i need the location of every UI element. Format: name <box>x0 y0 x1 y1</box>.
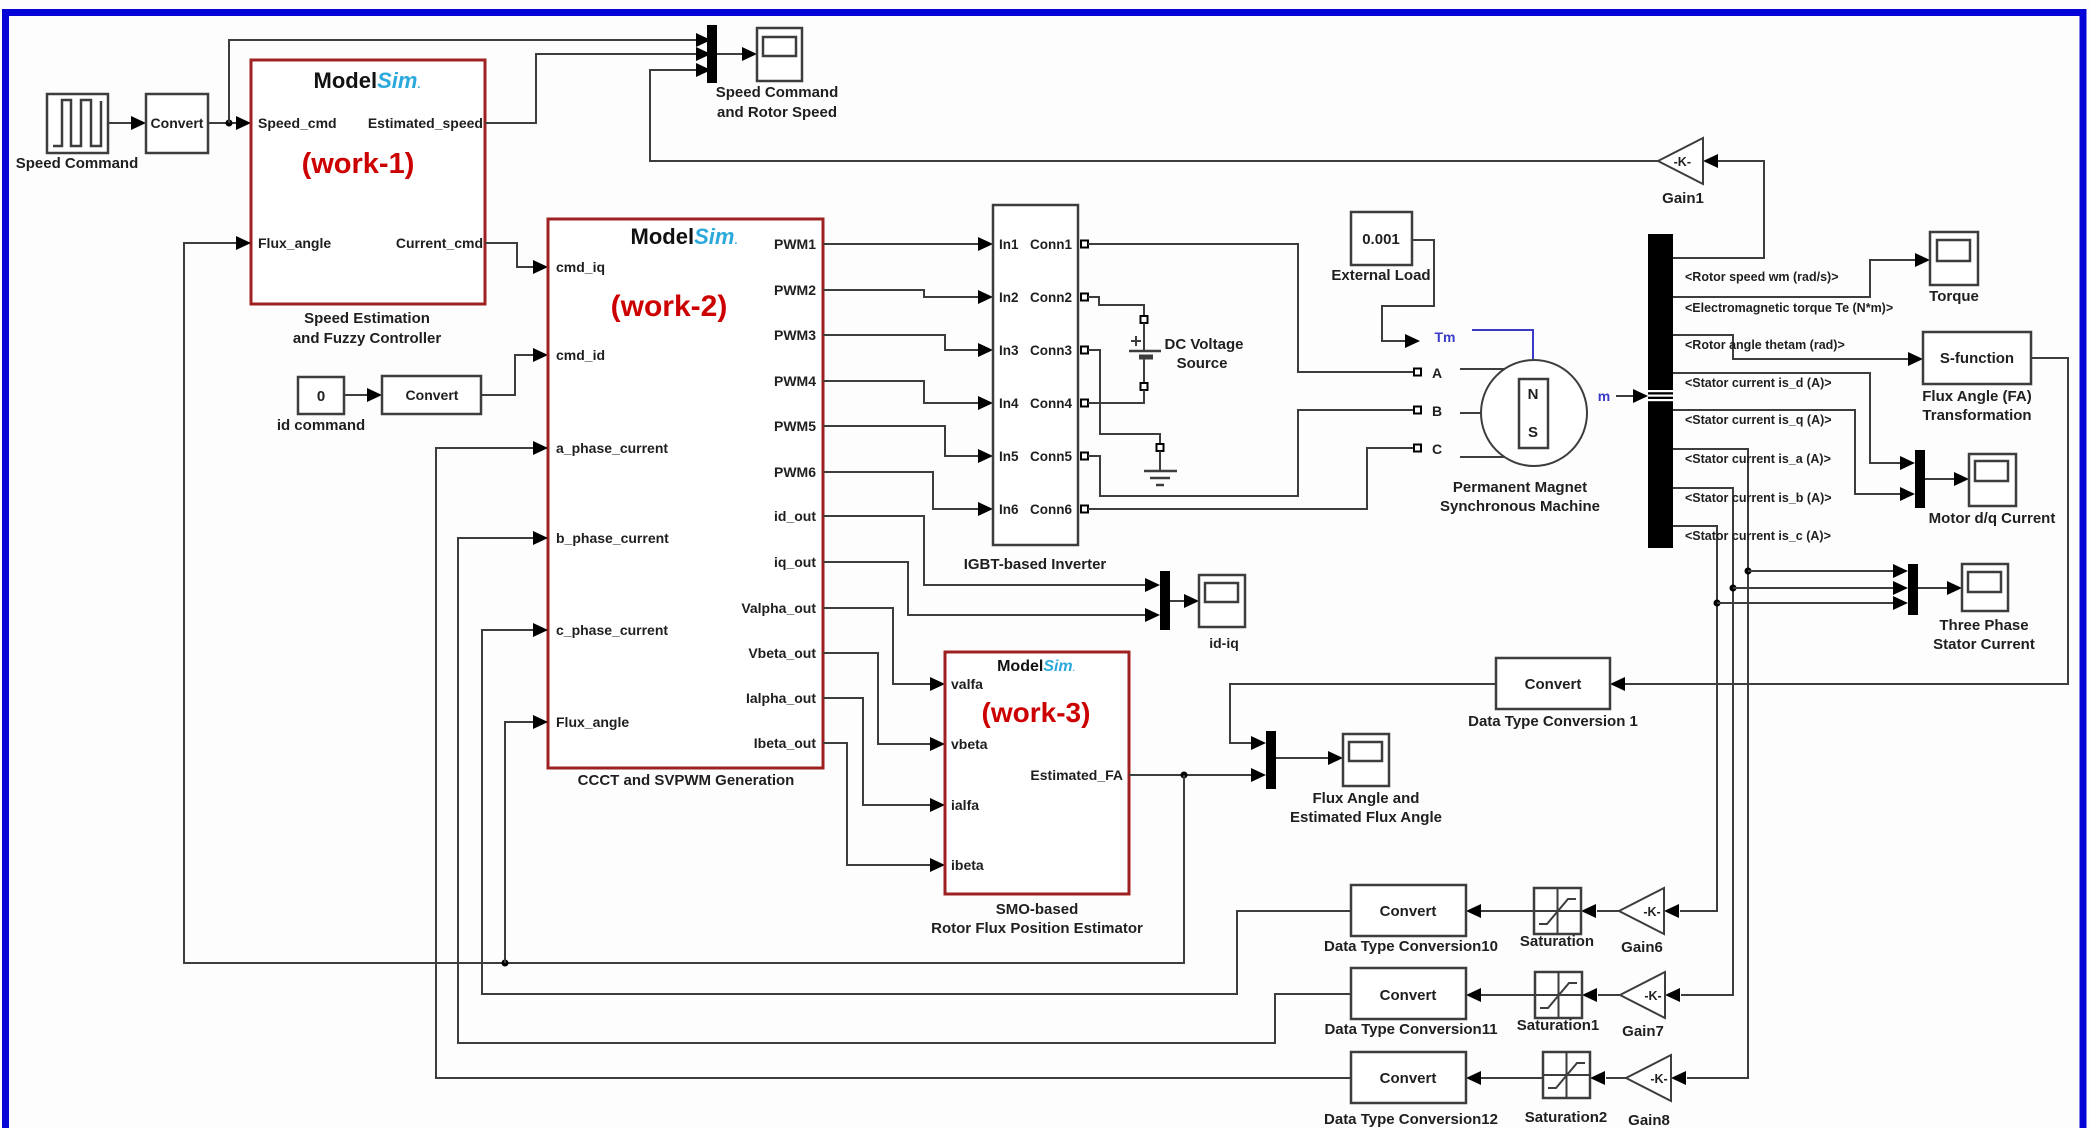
svg-text:<Stator current is_d (A)>: <Stator current is_d (A)> <box>1685 376 1832 390</box>
svg-text:<Electromagnetic torque Te (N*: <Electromagnetic torque Te (N*m)> <box>1685 301 1893 315</box>
wire is_b branch to Three Phase mux <box>1730 585 1737 592</box>
machine stub A <box>1460 368 1504 370</box>
svg-text:PWM4: PWM4 <box>774 373 816 389</box>
svg-text:Conn1: Conn1 <box>1030 237 1072 252</box>
svg-text:<Stator current is_a (A)>: <Stator current is_a (A)> <box>1685 452 1831 466</box>
svg-text:Source: Source <box>1177 355 1228 372</box>
svg-text:<Stator current is_c (A)>: <Stator current is_c (A)> <box>1685 529 1831 543</box>
svg-text:Synchronous Machine: Synchronous Machine <box>1440 498 1600 515</box>
svg-text:ModelSim.: ModelSim. <box>631 224 738 249</box>
block IGBT-based Inverter <box>993 205 1078 545</box>
scope Speed Command and Rotor Speed <box>757 28 802 81</box>
block S-function <box>1923 332 2031 384</box>
svg-text:ialfa: ialfa <box>951 797 979 813</box>
svg-text:Flux_angle: Flux_angle <box>258 235 331 251</box>
machine Permanent Magnet Synchronous Machine <box>1481 360 1587 466</box>
wire Tm blue to machine top <box>1472 330 1533 359</box>
block Convert Data Type Conversion 1 <box>1496 658 1610 709</box>
svg-text:id_out: id_out <box>774 508 816 524</box>
svg-text:<Stator current is_q (A)>: <Stator current is_q (A)> <box>1685 413 1832 427</box>
svg-text:N: N <box>1528 386 1539 403</box>
svg-text:ModelSim.: ModelSim. <box>997 658 1075 675</box>
block Convert Data Type Conversion10 <box>1351 885 1466 936</box>
svg-text:Speed Command: Speed Command <box>16 155 139 172</box>
svg-text:In4: In4 <box>999 396 1019 411</box>
svg-text:PWM2: PWM2 <box>774 282 816 298</box>
svg-text:a_phase_current: a_phase_current <box>556 440 668 456</box>
wire Valpha_out to valfa <box>823 608 931 684</box>
svg-text:C: C <box>1432 441 1442 457</box>
svg-text:Torque: Torque <box>1929 288 1979 305</box>
wire Estimated_speed to Speed Command mux <box>485 54 697 123</box>
scope Motor d/q Current <box>1969 454 2016 506</box>
wire 1733 to Gain7 <box>1681 994 1733 996</box>
wire battery negative to Conn4 <box>1088 390 1144 403</box>
svg-text:-K-: -K- <box>1674 155 1691 169</box>
block Convert (data type conversion) <box>146 94 208 153</box>
svg-text:S-function: S-function <box>1940 350 2014 367</box>
svg-text:Valpha_out: Valpha_out <box>741 600 816 616</box>
svg-text:Convert: Convert <box>1380 903 1437 920</box>
wire Convert to cmd_id <box>481 355 534 395</box>
svg-text:cmd_iq: cmd_iq <box>556 259 605 275</box>
mux Motor d/q <box>1915 450 1925 508</box>
wire stator current is_b down <box>1673 488 1733 995</box>
node B port square <box>1414 407 1421 414</box>
svg-text:Speed_cmd: Speed_cmd <box>258 115 337 131</box>
wire iq_out to id-iq mux <box>823 562 1146 615</box>
svg-text:Three Phase: Three Phase <box>1939 617 2028 634</box>
magnet N S <box>1519 379 1548 448</box>
svg-text:(work-3): (work-3) <box>982 697 1091 728</box>
node A port square <box>1414 369 1421 376</box>
wire DTC1 output to Flux Angle mux <box>1230 684 1496 743</box>
wire Gain8 to Saturation2 <box>1606 1077 1626 1079</box>
svg-text:Stator Current: Stator Current <box>1933 636 2035 653</box>
node ground terminal <box>1157 444 1164 451</box>
svg-text:Transformation: Transformation <box>1922 407 2031 424</box>
svg-text:Vbeta_out: Vbeta_out <box>748 645 816 661</box>
svg-text:-K-: -K- <box>1644 989 1661 1003</box>
svg-text:Estimated_speed: Estimated_speed <box>368 115 483 131</box>
svg-text:b_phase_current: b_phase_current <box>556 530 669 546</box>
wire DTC11 to b_phase_current <box>458 538 1351 1043</box>
svg-text:vbeta: vbeta <box>951 736 988 752</box>
machine stub C <box>1460 456 1504 458</box>
svg-text:valfa: valfa <box>951 676 983 692</box>
svg-text:Convert: Convert <box>151 115 204 131</box>
wire Conn5 to machine terminal B <box>1088 410 1414 496</box>
wire Vbeta_out to vbeta <box>823 653 931 744</box>
svg-text:<Rotor speed wm (rad/s)>: <Rotor speed wm (rad/s)> <box>1685 270 1839 284</box>
wire Gain7 to Saturation1 <box>1598 994 1620 996</box>
machine stub B <box>1460 412 1482 414</box>
svg-text:Convert: Convert <box>1380 1070 1437 1087</box>
svg-text:Rotor Flux Position Estimator: Rotor Flux Position Estimator <box>931 920 1143 937</box>
wire mux to Three Phase scope <box>1918 587 1948 589</box>
wire Gain1 output feedback to Speed mux <box>650 70 1658 161</box>
wire Current_cmd to cmd_iq <box>485 243 534 267</box>
wire stator current is_a down <box>1673 449 1748 1078</box>
subsystem work-3 SMO-based Rotor Flux Position Estimator <box>945 652 1129 894</box>
svg-text:Data Type Conversion11: Data Type Conversion11 <box>1324 1021 1497 1038</box>
node C port square <box>1414 445 1421 452</box>
svg-text:Gain8: Gain8 <box>1628 1112 1670 1128</box>
svg-text:Data Type Conversion12: Data Type Conversion12 <box>1324 1111 1498 1128</box>
svg-text:Convert: Convert <box>1525 676 1582 693</box>
wire Saturation2 to Convert <box>1480 1077 1543 1079</box>
wire m to bus selector <box>1616 395 1634 397</box>
svg-text:Saturation1: Saturation1 <box>1517 1017 1600 1034</box>
wire PWM2 to In2 <box>823 290 979 297</box>
mux id-iq <box>1160 571 1170 630</box>
svg-text:Conn2: Conn2 <box>1030 290 1072 305</box>
gain Gain6 <box>1619 888 1664 934</box>
svg-text:Ibeta_out: Ibeta_out <box>754 735 817 751</box>
svg-text:DC Voltage: DC Voltage <box>1165 336 1244 353</box>
wire PWM5 to In5 <box>823 426 979 456</box>
block Convert Data Type Conversion11 <box>1351 968 1466 1019</box>
svg-text:Flux Angle (FA): Flux Angle (FA) <box>1922 388 2031 405</box>
wire 1748 to Gain8 <box>1687 1077 1748 1079</box>
svg-text:PWM5: PWM5 <box>774 418 816 434</box>
svg-text:Convert: Convert <box>406 387 459 403</box>
wire PWM6 to In6 <box>823 472 979 509</box>
svg-text:Estimated Flux Angle: Estimated Flux Angle <box>1290 809 1442 826</box>
svg-text:Speed Estimation: Speed Estimation <box>304 310 430 327</box>
svg-text:IGBT-based Inverter: IGBT-based Inverter <box>964 556 1107 573</box>
wire Convert to work-1 Speed_cmd with branch junction <box>208 122 237 124</box>
svg-text:Gain7: Gain7 <box>1622 1023 1664 1040</box>
wire feedback Estimated_FA down and left <box>184 243 1184 963</box>
wire mux to Motor d/q scope <box>1925 478 1955 480</box>
wire External Load to Tm <box>1382 240 1434 341</box>
svg-text:Conn4: Conn4 <box>1030 396 1072 411</box>
svg-text:Conn3: Conn3 <box>1030 343 1072 358</box>
svg-text:c_phase_current: c_phase_current <box>556 622 668 638</box>
node battery top terminal <box>1141 316 1148 323</box>
bus selector bar <box>1648 234 1673 548</box>
gain Gain8 <box>1626 1055 1671 1101</box>
svg-text:B: B <box>1432 403 1442 419</box>
source block Speed Command <box>47 94 108 153</box>
svg-text:Data Type Conversion10: Data Type Conversion10 <box>1324 938 1498 955</box>
svg-text:A: A <box>1432 365 1442 381</box>
wire Ibeta_out to ibeta <box>823 743 931 865</box>
svg-text:m: m <box>1598 388 1610 404</box>
svg-text:0: 0 <box>317 388 325 405</box>
svg-text:CCCT and SVPWM Generation: CCCT and SVPWM Generation <box>578 772 795 789</box>
wire branch to work-2 Flux_angle <box>505 722 534 963</box>
svg-text:In3: In3 <box>999 343 1019 358</box>
svg-text:Current_cmd: Current_cmd <box>396 235 483 251</box>
svg-text:In1: In1 <box>999 237 1019 252</box>
svg-text:In6: In6 <box>999 502 1019 517</box>
svg-text:and Fuzzy Controller: and Fuzzy Controller <box>293 330 442 347</box>
gain Gain7 <box>1620 972 1665 1018</box>
wire PWM4 to In4 <box>823 381 979 403</box>
svg-text:<Rotor angle thetam (rad)>: <Rotor angle thetam (rad)> <box>1685 338 1845 352</box>
svg-text:iq_out: iq_out <box>774 554 816 570</box>
svg-text:External Load: External Load <box>1331 267 1430 284</box>
gain Gain1 <box>1658 138 1703 184</box>
wire stator current is_c down <box>1673 526 1717 911</box>
saturation Saturation1 <box>1535 972 1582 1018</box>
svg-text:(work-2): (work-2) <box>611 290 728 323</box>
wire is_c branch to Three Phase mux <box>1714 600 1721 607</box>
svg-text:Saturation: Saturation <box>1520 933 1594 950</box>
svg-text:Permanent Magnet: Permanent Magnet <box>1453 479 1587 496</box>
svg-text:PWM6: PWM6 <box>774 464 816 480</box>
wire Saturation to Convert <box>1480 910 1534 912</box>
svg-text:(work-1): (work-1) <box>302 148 415 180</box>
svg-text:Gain1: Gain1 <box>1662 190 1704 207</box>
wire branch up to Speed Command mux <box>229 40 697 123</box>
wire Conn3 to ground <box>1088 350 1160 444</box>
scope Flux Angle and Estimated Flux Angle <box>1343 734 1389 786</box>
saturation Saturation <box>1534 888 1581 934</box>
subsystem work-1 Speed Estimation and Fuzzy Controller <box>251 60 485 304</box>
scope Three Phase Stator Current <box>1962 564 2008 611</box>
scope Torque <box>1930 232 1978 285</box>
block Convert (id) <box>382 376 481 414</box>
svg-text:and Rotor Speed: and Rotor Speed <box>717 104 837 121</box>
svg-text:Estimated_FA: Estimated_FA <box>1030 767 1123 783</box>
saturation Saturation2 <box>1543 1052 1590 1098</box>
svg-text:Flux Angle and: Flux Angle and <box>1313 790 1420 807</box>
wire id_out to id-iq mux <box>823 516 1146 585</box>
wire Estimated_FA to Flux Angle mux and feedback <box>1129 774 1252 776</box>
svg-text:In5: In5 <box>999 449 1019 464</box>
svg-text:-K-: -K- <box>1643 905 1660 919</box>
wire electromagnetic torque to Torque scope <box>1673 260 1916 297</box>
wire rotor angle thetam to S-function <box>1673 335 1909 359</box>
wire DTC12 to a_phase_current <box>436 448 1351 1078</box>
svg-text:-K-: -K- <box>1650 1072 1667 1086</box>
svg-text:Tm: Tm <box>1435 329 1456 345</box>
svg-text:Conn5: Conn5 <box>1030 449 1072 464</box>
svg-text:Saturation2: Saturation2 <box>1525 1109 1608 1126</box>
svg-text:S: S <box>1528 424 1538 441</box>
svg-text:Data Type Conversion 1: Data Type Conversion 1 <box>1468 713 1638 730</box>
wire mux to Flux Angle scope <box>1276 757 1329 759</box>
constant block 0.001 External Load <box>1351 212 1412 265</box>
subsystem work-2 CCCT and SVPWM Generation <box>548 219 823 768</box>
wire PWM3 to In3 <box>823 335 979 350</box>
wire S-function to Data Type Conversion 1 <box>1624 358 2068 684</box>
svg-text:ibeta: ibeta <box>951 857 984 873</box>
svg-text:cmd_id: cmd_id <box>556 347 605 363</box>
mux Three Phase <box>1908 564 1918 615</box>
battery DC Voltage Source <box>1143 323 1145 351</box>
svg-text:Speed Command: Speed Command <box>716 84 839 101</box>
svg-text:Motor d/q Current: Motor d/q Current <box>1929 510 2056 527</box>
svg-text:In2: In2 <box>999 290 1019 305</box>
wire PWM1 to In1 <box>823 243 979 245</box>
mux Flux Angle <box>1266 731 1276 789</box>
wire mux to id-iq scope <box>1170 600 1185 602</box>
wire stator current is_d to Motor d/q mux <box>1673 373 1901 463</box>
svg-text:Flux_angle: Flux_angle <box>556 714 629 730</box>
mux Speed Command and Rotor Speed <box>707 25 717 83</box>
block Convert Data Type Conversion12 <box>1351 1052 1466 1103</box>
wire is_a branch to Three Phase mux <box>1745 568 1752 575</box>
svg-text:id-iq: id-iq <box>1209 635 1239 651</box>
wire DTC10 to c_phase_current <box>482 630 1351 994</box>
svg-text:id command: id command <box>277 417 365 434</box>
wire Ialpha_out to ialfa <box>823 698 931 805</box>
svg-text:Gain6: Gain6 <box>1621 939 1663 956</box>
svg-text:SMO-based: SMO-based <box>996 901 1079 918</box>
svg-text:Ialpha_out: Ialpha_out <box>746 690 816 706</box>
wire stator current is_q to Motor d/q mux <box>1673 410 1901 494</box>
wire 1717 to Gain6 <box>1680 910 1717 912</box>
wire mux to scope <box>717 53 743 55</box>
wire source to Convert <box>108 122 133 124</box>
wire Gain6 to Saturation <box>1597 910 1619 912</box>
constant block 0 (id command) <box>298 377 344 414</box>
wire rotor speed wm to Gain1 <box>1673 161 1764 258</box>
svg-text:PWM3: PWM3 <box>774 327 816 343</box>
ground symbol <box>1159 451 1161 471</box>
svg-text:Convert: Convert <box>1380 987 1437 1004</box>
scope id-iq <box>1199 575 1245 627</box>
bus selector input stripes <box>1648 390 1673 392</box>
svg-text:ModelSim.: ModelSim. <box>314 68 421 93</box>
wire Conn1 to machine terminal A <box>1088 244 1414 372</box>
wire Saturation1 to Convert <box>1480 994 1535 996</box>
svg-text:0.001: 0.001 <box>1362 231 1400 248</box>
svg-text:<Stator current is_b (A)>: <Stator current is_b (A)> <box>1685 491 1832 505</box>
wire Conn2 to DC source positive <box>1088 297 1144 316</box>
svg-text:PWM1: PWM1 <box>774 236 816 252</box>
node battery bottom terminal <box>1141 383 1148 390</box>
svg-text:Conn6: Conn6 <box>1030 502 1072 517</box>
wire Conn6 to machine terminal C <box>1088 448 1414 509</box>
wire 0 to Convert <box>344 394 368 396</box>
